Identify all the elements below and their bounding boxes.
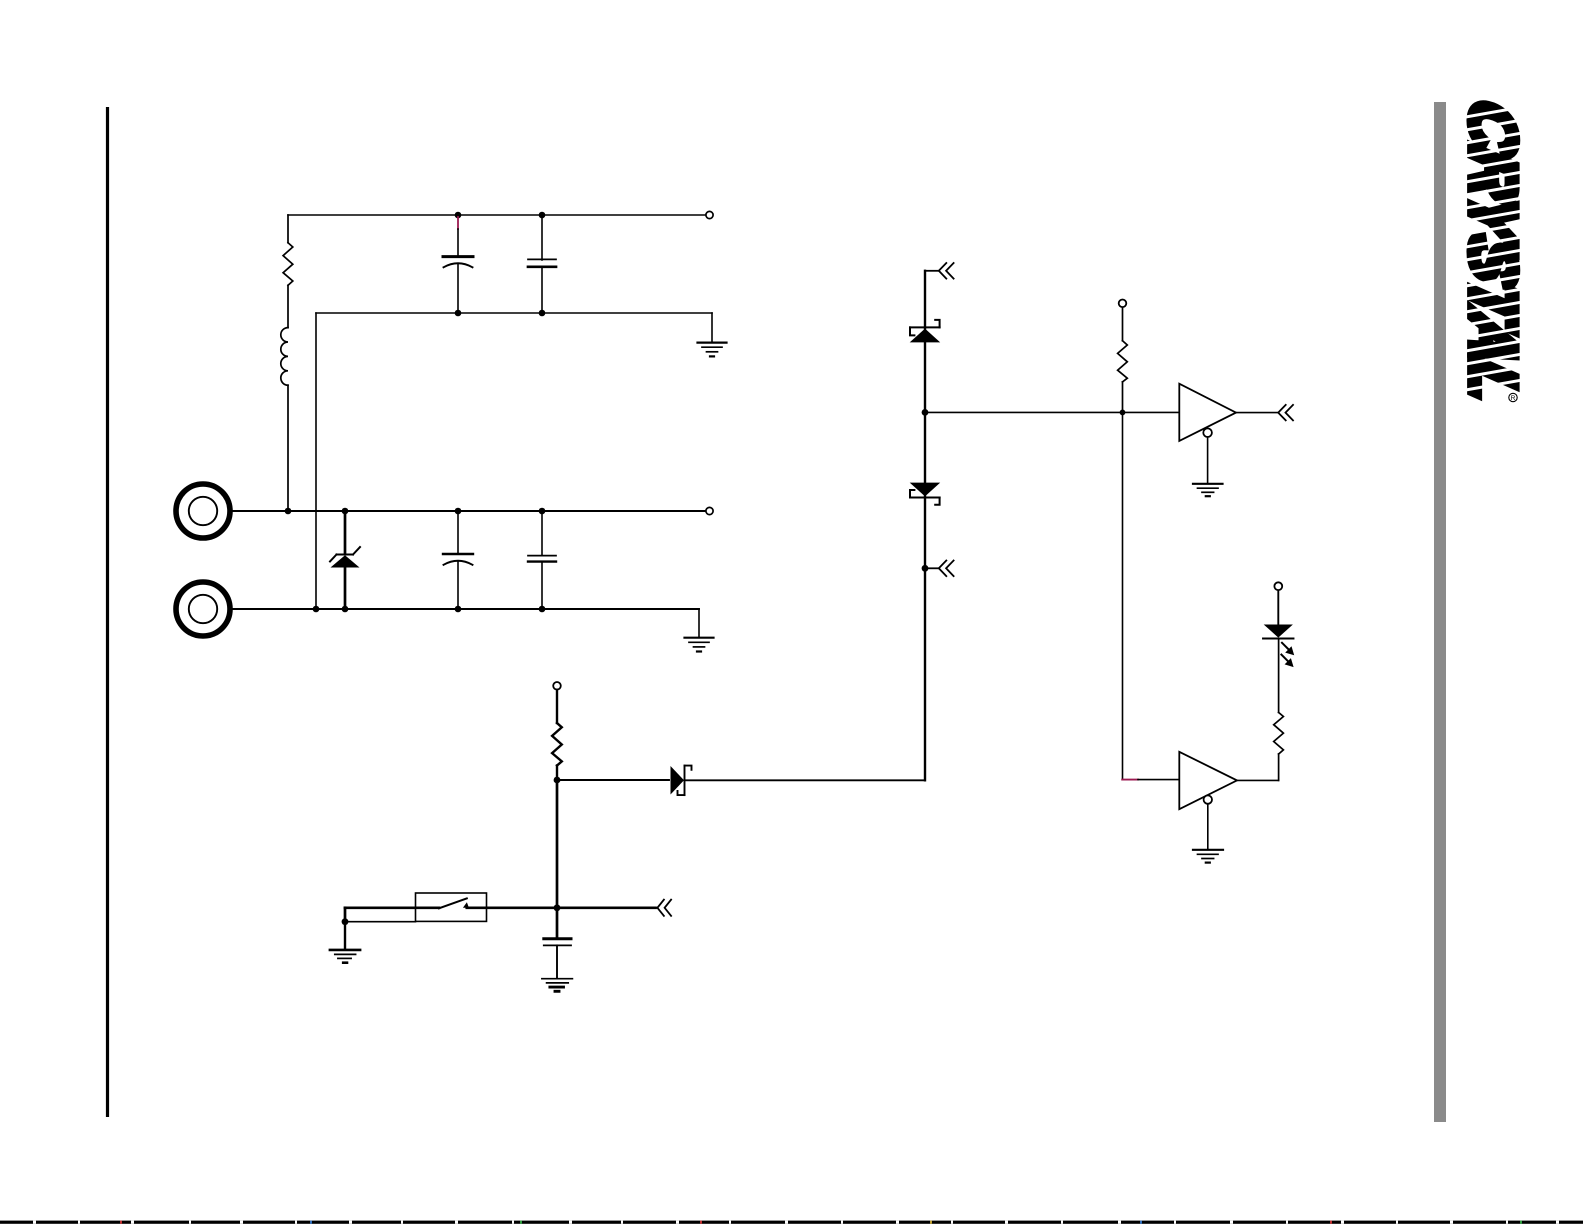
ground G1 [698,313,727,356]
wire diode D2 cathode to main vertical net [685,779,926,781]
wire U2 input [1138,779,1179,781]
junction dot C1 bottom [455,310,462,317]
wire node A down to comparator U2 input [1122,412,1124,779]
comparator U1 [1179,384,1236,441]
svg-text:R: R [1511,395,1516,402]
junction dot C3 top [455,508,462,515]
junction dot C3 bottom [455,606,462,613]
wire switch row [345,908,656,922]
comparator U2 [1179,752,1237,809]
wire comparator U1 output [1236,412,1278,414]
wire AGND drop to jack J2 row [315,313,317,609]
zener diode Z1 [910,320,941,343]
RCA jack J1 [176,484,230,538]
ground G4 [1193,850,1223,863]
switch S1 [416,893,487,921]
capacitor C4 [528,511,556,609]
terminal VA+ open circle [706,211,713,218]
zener diode Z2 [910,483,941,505]
off-page connector U1 output [1278,405,1293,420]
capacitor C3 polarized [443,511,473,609]
ground G6 [330,922,360,963]
zener diode D1 [330,511,360,609]
wire net VA+ top rail [288,214,706,216]
junction dot switch ground leg [342,918,349,925]
RCA jack J2 [176,582,230,636]
off-page connector switch row [655,900,671,916]
junction dot D1 bottom [342,606,349,613]
wire node RST to diode D2 [557,779,669,781]
wire U2 ground pin [1207,804,1209,850]
wire jack J2 ground row [233,608,699,610]
off-page connector node B [925,561,954,577]
capacitor C5 [544,908,571,978]
wire main vertical net [924,271,926,781]
capacitor C2 [528,215,556,313]
junction dot D1 top [342,508,349,515]
wire U1 ground pin [1207,437,1209,483]
resistor R2 [552,690,562,780]
junction dot L1 bottom [285,508,292,515]
LED D3 light arrows [1281,643,1294,667]
resistor R3 [1118,307,1128,412]
terminal VD+ open circle [553,682,561,690]
schottky diode D2 [671,766,692,796]
junction dot C2 top [539,212,546,219]
inductor L1 [281,328,288,511]
terminal LED anode open circle [1274,582,1282,590]
ground G2 [685,609,714,652]
wire switch pin 2 stub [345,921,416,923]
node RST junction dot [554,777,561,784]
ground G5 [542,979,573,992]
junction dot C4 top [539,508,546,515]
wire net AGND upper row [316,312,712,314]
wire node A to comparator U1 input [925,411,1179,413]
junction dot C1 top [455,212,462,219]
wire node RST down to switch row [556,780,559,908]
junction dot R3 bottom [1120,410,1126,416]
junction dot C2 bottom [539,310,546,317]
node B junction dot [922,565,929,572]
node A junction dot [922,409,929,416]
Crystal Semiconductor logo [1457,94,1530,408]
wire jack J1 signal row [233,510,706,512]
off-page connector top [925,263,954,279]
terminal VCC open circle [1119,300,1127,308]
wire red net stub U2 input [1122,779,1138,781]
capacitor C1 polarized [443,217,473,313]
resistor R4 [1274,640,1284,781]
ground G3 [1193,484,1223,496]
resistor R1 [283,215,293,328]
junction dot C4 bottom [539,606,546,613]
wire comparator U2 output [1237,779,1279,781]
terminal open circle J1 row [706,507,713,514]
LED D3 [1263,590,1294,638]
junction dot AGND drop [313,606,320,613]
junction dot C5 top [554,904,561,911]
